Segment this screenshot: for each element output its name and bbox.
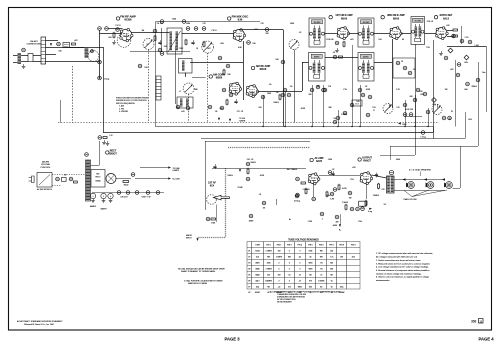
det part b: [403, 66, 407, 70]
wire ant lead a: [21, 55, 28, 57]
wire preamp drop: [216, 205, 218, 223]
svg-text:C25: C25: [372, 107, 375, 109]
svg-text:.02: .02: [332, 169, 335, 171]
svg-text:1W: 1W: [349, 198, 352, 200]
svg-text:0: 0: [279, 269, 280, 271]
svg-text:0: 0: [279, 263, 280, 265]
V1 shield: [117, 34, 131, 48]
svg-text:50: 50: [331, 281, 333, 283]
selenium rectifier M1: [91, 170, 105, 188]
IF transformer T2 10.7MC: [309, 18, 325, 47]
screen resistor R48: [378, 184, 380, 188]
wire ratio riser: [478, 62, 480, 146]
speaker bus arrow 2: [424, 178, 427, 180]
FM interstage transformer T1: [167, 28, 182, 54]
svg-text:1.75: 1.75: [330, 257, 333, 259]
svg-text:3. PHONO: 3. PHONO: [119, 111, 129, 113]
wire switch drop: [60, 100, 62, 123]
tie r2: [476, 78, 480, 82]
svg-text:50: 50: [331, 286, 333, 288]
wire drop 10: [415, 95, 417, 127]
wire AM IF link 3: [374, 62, 392, 64]
B plus tie 1: [160, 20, 164, 24]
heater row part c: [208, 105, 212, 109]
tube label V7 1st AF: [208, 182, 216, 188]
wire gang feed a: [389, 104, 391, 108]
svg-text:470: 470: [108, 37, 111, 39]
fusible resistor R60: [421, 131, 425, 135]
lug: [22, 48, 26, 52]
svg-text:1MEG: 1MEG: [227, 175, 233, 177]
wire heater drop left: [99, 31, 101, 80]
svg-text:TUBE: TUBE: [255, 245, 261, 247]
speaker wiring diagonals: [412, 190, 429, 197]
coupling capacitor C50: [213, 164, 216, 169]
svg-text:200: 200: [278, 275, 281, 277]
svg-text:200MEG: 200MEG: [265, 281, 272, 283]
wire feedback from speaker: [460, 146, 462, 188]
decoupling resistor R44: [345, 205, 347, 209]
svg-text:0: 0: [289, 281, 290, 283]
wire AM conv plate lead: [258, 91, 303, 93]
svg-text:6. Volume control at maximum,: 6. Volume control at maximum, no signal …: [376, 276, 430, 279]
wire AM IF link: [302, 62, 309, 64]
choke part: [103, 137, 107, 139]
svg-text:220: 220: [419, 91, 422, 93]
filter resistor R31: [123, 181, 129, 183]
wire osc gang lead: [192, 77, 206, 79]
tube label V2 FM MIX-OSC: [228, 15, 249, 22]
padder pin: [343, 111, 347, 115]
wire osc riser: [175, 46, 177, 104]
svg-text:1500: 1500: [186, 23, 190, 25]
cap C21: [460, 39, 464, 43]
tie b1: [281, 60, 285, 64]
drop 11 capacitor: [426, 110, 430, 114]
svg-text:200x: 200x: [340, 286, 344, 288]
svg-text:ALL MEASUREMENTS TAKEN ON 'FM': ALL MEASUREMENTS TAKEN ON 'FM' POSITION …: [270, 290, 341, 293]
wire heater run: [109, 28, 123, 30]
drop 11 junction: [427, 126, 428, 127]
wire drop 7: [352, 45, 354, 127]
svg-text:1.5MEG: 1.5MEG: [318, 281, 325, 283]
wire osc coil drop: [185, 73, 187, 78]
wire switch out a: [46, 40, 58, 42]
svg-text:100K: 100K: [267, 93, 272, 95]
conv grid leak R10: [279, 95, 281, 99]
svg-text:C6 .001: C6 .001: [157, 23, 164, 25]
bypass C56: [356, 207, 360, 211]
svg-text:0: 0: [289, 263, 290, 265]
wire IF link 2: [349, 33, 359, 35]
svg-text:R4: R4: [142, 30, 144, 32]
bypass C55: [350, 207, 354, 211]
svg-text:R42 10MEG: R42 10MEG: [287, 169, 298, 171]
svg-text:470: 470: [352, 167, 355, 169]
speaker SP1: [406, 182, 414, 189]
filter capacitor C40B ground: [102, 199, 106, 203]
gang trimmer b1: [442, 116, 446, 120]
svg-text:PAGE 4: PAGE 4: [478, 337, 494, 342]
svg-text:6BE6: 6BE6: [255, 263, 259, 265]
svg-text:variation of values voltage an: variation of values voltage and resistan…: [376, 272, 422, 275]
to tuner arrow1: [218, 118, 220, 121]
wire screen riser: [161, 28, 163, 52]
wire det join: [461, 26, 463, 44]
speaker SP3: [444, 182, 452, 189]
wire afc line: [380, 155, 415, 157]
svg-text:AC RECEPTACLE: AC RECEPTACLE: [37, 188, 53, 191]
test point TP2: [464, 55, 469, 60]
svg-text:470: 470: [181, 111, 184, 113]
svg-text:5. Nominal tolerance of compo: 5. Nominal tolerance of component values…: [376, 269, 430, 272]
svg-text:C17 .01: C17 .01: [237, 111, 244, 113]
det part c: [408, 71, 412, 75]
svg-text:1 MEG: 1 MEG: [342, 202, 348, 204]
det part d: [416, 88, 420, 92]
wire terminal to switch a: [33, 55, 41, 57]
svg-text:V6: V6: [248, 281, 250, 283]
osc resistor R9: [226, 100, 228, 104]
svg-text:FUNCTION SWITCH VIEWED FROM: FUNCTION SWITCH VIEWED FROM: [116, 98, 148, 100]
part bias g: [348, 191, 352, 195]
RF amp ground: [112, 40, 116, 45]
wire OT primary lead: [372, 175, 387, 178]
wire gang feed b: [437, 104, 439, 108]
wire IF link 5: [425, 33, 437, 35]
wire screen drop 2: [285, 92, 287, 127]
svg-text:C3 10: C3 10: [115, 25, 120, 27]
wire feedback drop: [390, 146, 392, 160]
svg-text:190: 190: [340, 257, 343, 259]
cap C8: [194, 27, 198, 31]
svg-text:470K: 470K: [301, 108, 306, 110]
svg-text:† MEASURED FROM PIN 8 OF 6X5: † MEASURED FROM PIN 8 OF 6X5: [277, 293, 306, 296]
svg-text:CONTROL: CONTROL: [40, 167, 51, 169]
cathode bypass C51: [206, 217, 210, 221]
grid stopper R43: [301, 182, 306, 184]
row part b: [138, 64, 142, 68]
wire drop 11: [428, 108, 430, 127]
wire drop 8: [360, 85, 362, 127]
svg-text:180: 180: [258, 107, 261, 109]
wire right riser: [486, 46, 488, 112]
drop 4 junction: [311, 126, 312, 127]
cathode tie: [333, 188, 337, 192]
wire V1 plate lead: [132, 32, 171, 34]
filter capacitor C40C: [108, 193, 113, 198]
svg-text:2. FM: 2. FM: [119, 108, 124, 110]
svg-text:-45: -45: [299, 257, 302, 259]
svg-text:70: 70: [320, 275, 322, 277]
heater string component 5: [156, 191, 160, 195]
svg-text:PIN 9: PIN 9: [351, 245, 356, 247]
svg-text:GANG IN FULL MESH: GANG IN FULL MESH: [188, 282, 208, 285]
wire det lead 1: [447, 30, 453, 32]
shielded wire radio input lead: [198, 237, 226, 239]
svg-text:.05: .05: [276, 92, 279, 94]
svg-text:PIN 3: PIN 3: [287, 245, 292, 247]
svg-text:560: 560: [464, 89, 467, 91]
speaker bus arrow 3: [442, 178, 445, 180]
svg-text:6V6GT: 6V6GT: [363, 160, 371, 163]
tube label V4 1ST IF AMP: [329, 14, 353, 20]
wire feedback tap: [453, 188, 460, 190]
wire cathode row: [130, 51, 190, 53]
wire speaker bus top: [394, 179, 445, 181]
svg-text:C51 .02: C51 .02: [247, 159, 254, 161]
svg-text:NO DIAL INDICATION CAN BE SHOW: NO DIAL INDICATION CAN BE SHOWN SINCE DR…: [178, 267, 225, 270]
svg-text:C53: C53: [350, 179, 353, 181]
svg-text:5 mg: 5 mg: [368, 211, 372, 213]
svg-text:0: 0: [279, 281, 280, 283]
wire HT lead: [91, 165, 100, 167]
drop 4 capacitor: [310, 88, 314, 92]
wire gang link C1B: [207, 53, 209, 123]
svg-text:SEL: SEL: [96, 174, 100, 176]
svg-text:2.2MEG: 2.2MEG: [276, 257, 283, 259]
wire speaker label leader: [420, 172, 422, 177]
svg-text:6J6: 6J6: [256, 257, 259, 259]
wire heater string wire: [92, 192, 164, 194]
svg-text:390: 390: [194, 89, 197, 91]
svg-text:PIN 8: PIN 8: [339, 245, 344, 247]
plate load resistor R45: [338, 185, 340, 189]
svg-text:V8: V8: [248, 292, 250, 294]
wire pilot lamp feed: [140, 167, 168, 169]
svg-text:350V: 350V: [396, 159, 401, 161]
AM loop coil L2: [63, 43, 70, 48]
svg-text:220K: 220K: [179, 48, 184, 50]
svg-text:NR NO READING: NR NO READING: [277, 301, 292, 304]
wire B plus riser: [155, 22, 157, 127]
svg-text:6BA6: 6BA6: [255, 274, 259, 277]
row part a: [160, 52, 164, 56]
part bias c: [295, 194, 299, 198]
B+ arrow: [168, 177, 171, 179]
heater string component 1: [117, 191, 121, 195]
B plus 305V arrow: [398, 122, 401, 124]
wire coupling run: [319, 175, 360, 177]
wire IF link 1: [325, 33, 338, 35]
grid resistor R2: [113, 33, 115, 37]
svg-text:6BA6: 6BA6: [393, 17, 400, 20]
svg-text:270: 270: [202, 23, 205, 25]
dial lamp 2: [105, 27, 109, 31]
heater row part b: [186, 106, 190, 110]
resistor R6: [203, 42, 205, 46]
part bias f: [330, 192, 334, 196]
det part f: [361, 93, 365, 97]
wire rf amp feed: [100, 33, 123, 35]
tone arrow: [369, 208, 372, 210]
svg-text:470K: 470K: [260, 175, 265, 177]
svg-text:600Ω: 600Ω: [124, 185, 129, 187]
svg-text:.005: .005: [220, 43, 224, 45]
svg-text:6AV6: 6AV6: [316, 160, 322, 163]
osc grid resistor R8: [223, 70, 225, 74]
svg-text:V4: V4: [248, 269, 250, 271]
tone network C58: [361, 207, 365, 211]
cathode capacitor C57: [296, 193, 300, 197]
heater string component 2: [126, 191, 130, 195]
svg-text:1. AM: 1. AM: [119, 105, 124, 108]
svg-text:WR9: WR9: [309, 263, 313, 265]
osc coil box L10: [352, 100, 362, 106]
line capacitor C60: [69, 177, 73, 181]
svg-text:27: 27: [373, 110, 375, 112]
speaker SP2: [426, 182, 434, 189]
wire speaker bus bottom: [394, 190, 445, 192]
svg-text:0: 0: [299, 269, 300, 271]
svg-text:470K 1W: 470K 1W: [405, 109, 413, 111]
tube voltage readings table: [247, 242, 360, 290]
wire AVC bus: [155, 126, 433, 128]
svg-text:10.7MC: 10.7MC: [414, 20, 421, 22]
svg-text:measurements.: measurements.: [376, 279, 390, 282]
svg-text:120: 120: [396, 107, 399, 109]
det load R21: [453, 35, 458, 37]
wire gang link line: [58, 122, 438, 124]
tube V4 6BA6 1st IF amplifier: [337, 27, 350, 40]
wire bus fold right: [433, 127, 435, 139]
svg-text:CABLE PLUGS: CABLE PLUGS: [403, 198, 417, 201]
wire gang link C1A: [148, 50, 150, 123]
cathode resistor R40: [211, 218, 216, 220]
wire switch out b: [46, 47, 103, 49]
wire afc riser: [455, 60, 457, 127]
conv grid cap C16: [287, 93, 291, 97]
output transformer T11: [387, 176, 395, 193]
drop 8 junction: [359, 126, 360, 127]
tube V10 6V6GT output: [360, 172, 373, 185]
svg-text:-25: -25: [299, 281, 302, 283]
svg-text:68: 68: [402, 39, 404, 41]
svg-text:850: 850: [309, 286, 312, 288]
svg-text:A PHOTOFACT STANDARD NOTATION: A PHOTOFACT STANDARD NOTATION SCHEMATIC: [17, 320, 63, 323]
svg-text:V7: V7: [248, 286, 250, 288]
svg-text:ON 6.3V: ON 6.3V: [120, 197, 128, 199]
svg-text:470K: 470K: [342, 188, 347, 190]
tube V9 6AV6 AF amplifier: [308, 173, 320, 185]
wire terminal to switch b: [33, 61, 41, 63]
svg-text:1W: 1W: [445, 89, 448, 91]
heater row part a: [176, 105, 180, 109]
loop antenna shield: [88, 51, 99, 62]
svg-text:.01: .01: [333, 52, 336, 54]
svg-text:.05: .05: [269, 84, 272, 86]
wire ant lead b: [21, 61, 28, 63]
wire B+ drop audio: [340, 214, 342, 224]
svg-text:368: 368: [471, 320, 477, 324]
svg-text:CONNECTIONS: CONNECTIONS: [27, 44, 42, 46]
svg-text:100: 100: [58, 51, 61, 53]
svg-text:TONE: TONE: [237, 187, 243, 189]
svg-text:470mg: 470mg: [294, 201, 300, 203]
if cathode a: [316, 85, 320, 89]
svg-text:878: 878: [309, 281, 312, 283]
osc capacitor C13: [234, 99, 237, 104]
takeoff arrow: [239, 169, 241, 172]
svg-text:6BE6: 6BE6: [216, 76, 223, 80]
tie b2: [281, 93, 285, 97]
svg-text:AM-FM: AM-FM: [42, 161, 49, 164]
drop 5 capacitor: [322, 88, 326, 92]
wire bias wire: [276, 199, 278, 205]
det ground: [439, 51, 443, 56]
FM oscillator coil L5: [179, 59, 193, 74]
svg-text:6AL5: 6AL5: [256, 280, 260, 283]
svg-text:A10: A10: [352, 256, 355, 259]
output transformer lug: [389, 170, 393, 174]
svg-text:L7: L7: [179, 91, 181, 93]
svg-text:270: 270: [328, 86, 331, 88]
stab cap C20: [452, 34, 456, 38]
drop 10 junction: [414, 126, 415, 127]
AGC drop 1 capacitor: [261, 95, 265, 99]
svg-text:27.5: 27.5: [355, 103, 359, 105]
switch wiper arrow: [50, 43, 52, 46]
svg-text:1.5mg: 1.5mg: [104, 79, 109, 81]
B plus tie 2: [182, 20, 186, 24]
drop 6 junction: [337, 126, 338, 127]
IF tube ground: [335, 48, 339, 53]
svg-text:WR8: WR8: [298, 286, 302, 288]
de-emphasis C32: [457, 63, 461, 67]
svg-text:.1: .1: [321, 219, 323, 221]
wire T1 to mixer grid: [182, 33, 235, 35]
screen drop 2 junction: [284, 126, 285, 127]
filter capacitor C40B: [101, 193, 106, 198]
gang trimmer a: [366, 113, 370, 117]
AC line plug: [29, 176, 35, 183]
wire phono box top: [205, 141, 310, 143]
svg-text:V5: V5: [248, 275, 250, 277]
svg-text:6BA6: 6BA6: [260, 67, 267, 71]
tube V3 6BE6 AM converter: [229, 82, 242, 95]
part bias d: [320, 212, 324, 216]
detector component box: [393, 58, 415, 78]
antenna terminal strip: [28, 54, 33, 62]
trimmer C2: [57, 42, 61, 46]
tuning capacitor C1B: [202, 41, 214, 53]
wire left riser: [103, 47, 105, 133]
wire mixer plate run: [239, 29, 283, 31]
svg-text:B+ 105V: B+ 105V: [173, 179, 181, 181]
wire drop 5: [323, 85, 325, 127]
svg-text:1.5M: 1.5M: [474, 45, 479, 47]
IF transformer T5 455KC: [358, 53, 374, 82]
tube label V3B AM RF AMP: [251, 64, 270, 71]
svg-text:0: 0: [289, 269, 290, 271]
svg-text:50: 50: [288, 275, 290, 277]
svg-text:.003: .003: [468, 119, 472, 121]
IF transformer T3 10.7MC: [358, 18, 374, 47]
svg-text:0: 0: [299, 263, 300, 265]
svg-text:6J6: 6J6: [238, 18, 243, 22]
svg-text:6X5GT: 6X5GT: [109, 153, 117, 156]
radio input arrow: [196, 238, 198, 241]
tone switch box: [359, 201, 367, 206]
AM IF resistor R12: [339, 56, 343, 58]
svg-text:4" x 6" DUAL SPEAKERS: 4" x 6" DUAL SPEAKERS: [409, 169, 431, 172]
coupling capacitor C52: [331, 171, 334, 176]
surge resistor R51: [74, 181, 78, 183]
svg-text:1.2MEG: 1.2MEG: [265, 251, 272, 253]
bypass capacitor C5: [158, 40, 161, 45]
IF cathode bypass: [335, 41, 339, 45]
svg-text:455KC: 455KC: [363, 56, 369, 58]
